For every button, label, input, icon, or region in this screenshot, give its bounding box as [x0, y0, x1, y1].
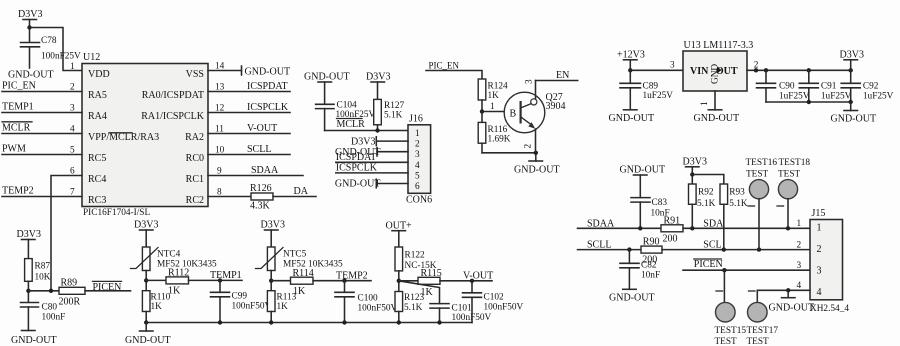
svg-text:TEST15: TEST15: [715, 326, 747, 336]
svg-text:U13 LM1117-3.3: U13 LM1117-3.3: [684, 40, 754, 51]
power port D3V3 (above R92/R93): [683, 157, 707, 185]
wire OUT rail / pin 2: [747, 61, 851, 71]
svg-text:200: 200: [663, 233, 678, 244]
svg-text:MCLR: MCLR: [2, 123, 31, 134]
pin number 4 / wire MCLR: [2, 122, 82, 135]
resistor R110 1K: [142, 291, 170, 323]
svg-text:1uF25V: 1uF25V: [821, 92, 852, 102]
node C83/SDA junction: [638, 226, 642, 230]
svg-text:R110: R110: [151, 293, 171, 303]
wire PICEN net to J15 pin 3: [683, 259, 810, 271]
svg-text:2: 2: [415, 140, 420, 150]
svg-text:RC1: RC1: [186, 174, 204, 185]
svg-text:RC0: RC0: [186, 153, 204, 164]
capacitor C78: [21, 36, 82, 68]
wire emitter to ground rail: [482, 152, 536, 154]
J16 pin5 wire ICSPCLK: [336, 163, 408, 174]
wire PICEN net: [85, 281, 131, 292]
svg-text:TEST17: TEST17: [747, 326, 779, 336]
svg-text:PICEN: PICEN: [93, 282, 122, 293]
svg-text:R92: R92: [698, 188, 714, 198]
svg-text:3: 3: [415, 150, 420, 160]
svg-text:1uF25V: 1uF25V: [779, 92, 810, 102]
svg-text:6: 6: [415, 182, 420, 192]
svg-text:R123: R123: [404, 293, 424, 303]
node base junction: [480, 109, 484, 113]
thermistor NTC5 MF52 10K3435: [256, 247, 344, 291]
svg-text:1: 1: [817, 223, 822, 234]
svg-text:R114: R114: [293, 268, 314, 279]
node rail R113: [269, 320, 273, 324]
node NTC5/R113/R114 junction: [269, 279, 273, 283]
svg-text:1: 1: [490, 102, 495, 112]
svg-text:C102: C102: [484, 293, 504, 303]
svg-text:RC5: RC5: [88, 153, 106, 164]
svg-text:TEST: TEST: [778, 170, 801, 180]
svg-text:5.1K: 5.1K: [729, 199, 748, 209]
capacitor C89: [620, 70, 673, 110]
wire junction to R112: [146, 279, 166, 281]
svg-text:TEST: TEST: [746, 170, 769, 180]
resistor R124 1K: [478, 79, 508, 122]
svg-text:GND-OUT: GND-OUT: [609, 113, 655, 124]
svg-text:100nF25V: 100nF25V: [41, 52, 81, 62]
resistor R92 5.1K: [689, 184, 716, 228]
svg-text:VPP/MCLR/RA3: VPP/MCLR/RA3: [88, 132, 159, 143]
svg-text:RA4: RA4: [88, 111, 107, 122]
svg-text:V-OUT: V-OUT: [463, 271, 493, 282]
svg-text:C90: C90: [779, 82, 795, 92]
svg-text:ICSPCLK: ICSPCLK: [247, 102, 289, 113]
svg-text:2: 2: [817, 244, 822, 255]
capacitor C102: [463, 281, 524, 323]
connector J16 CON6: [406, 114, 432, 206]
node rail R110: [144, 320, 148, 324]
svg-text:TEMP2: TEMP2: [336, 270, 368, 281]
pin 11 wire V-OUT: [208, 123, 290, 135]
svg-text:PIC16F1704-I/SL: PIC16F1704-I/SL: [83, 208, 150, 218]
svg-text:SDA: SDA: [703, 218, 724, 229]
wire junction to R89: [28, 290, 59, 292]
svg-text:R127: R127: [384, 101, 404, 111]
power port GND-OUT (above C104): [304, 72, 350, 105]
svg-text:D3V3: D3V3: [366, 72, 390, 83]
svg-text:R112: R112: [168, 268, 189, 279]
svg-text:R116: R116: [488, 125, 508, 135]
test point TEST17: [747, 290, 779, 346]
svg-text:VIN: VIN: [690, 66, 709, 77]
node pin4/GND junction: [786, 288, 790, 292]
pin 10 wire SCLL: [208, 144, 290, 156]
svg-text:R90: R90: [643, 237, 660, 248]
node C91 bottom: [807, 100, 811, 104]
node R87/C80/R89 junction: [26, 289, 30, 293]
pin number 7 / wire TEMP2: [2, 186, 82, 198]
svg-text:R93: R93: [729, 188, 745, 198]
svg-text:D3V3: D3V3: [840, 50, 864, 61]
svg-text:3: 3: [525, 79, 535, 84]
svg-text:TEMP2: TEMP2: [2, 186, 34, 197]
svg-text:RA0/ICSPDAT: RA0/ICSPDAT: [142, 90, 204, 101]
svg-text:4.3K: 4.3K: [250, 201, 271, 212]
svg-text:C83: C83: [652, 198, 668, 208]
svg-text:D3V3: D3V3: [351, 137, 375, 148]
svg-text:U12: U12: [83, 52, 100, 63]
power port D3V3 (above R127): [366, 72, 390, 100]
node TEST15/PICEN junction: [722, 268, 726, 272]
capacitor C83: [631, 198, 670, 229]
node C82/SCL junction: [627, 247, 631, 251]
svg-text:RC3: RC3: [88, 195, 106, 206]
svg-text:3: 3: [670, 61, 675, 71]
wire junction to R115: [399, 280, 418, 282]
svg-text:C100: C100: [358, 294, 378, 304]
pin 12 wire ICSPCLK: [208, 102, 290, 114]
ground GND-OUT (below C89): [609, 110, 655, 124]
svg-text:1K: 1K: [488, 91, 500, 101]
svg-text:NTC4: NTC4: [157, 250, 181, 260]
power port D3V3 (above R87): [17, 229, 41, 259]
node C100 top: [342, 279, 346, 283]
capacitor C100: [335, 281, 398, 323]
svg-text:100nF: 100nF: [42, 313, 66, 323]
svg-text:1: 1: [700, 101, 710, 106]
svg-text:100nF50V: 100nF50V: [484, 302, 524, 312]
node C102 top: [470, 279, 474, 283]
ground GND-OUT (below C80): [11, 331, 57, 346]
svg-text:VSS: VSS: [186, 69, 204, 80]
wire MCLR net: [325, 119, 408, 131]
ground GND-OUT (below C82): [609, 289, 655, 303]
svg-text:R91: R91: [664, 215, 681, 226]
svg-text:MCLR: MCLR: [337, 119, 366, 130]
capacitor C91: [799, 70, 851, 102]
svg-text:100nF50V: 100nF50V: [232, 302, 272, 312]
node NTC4/R110/R112 junction: [144, 278, 148, 282]
ground GND-OUT (U13 pin 1): [694, 91, 740, 124]
node rail C100: [342, 320, 346, 324]
pin 14 wire / power GND-OUT: [208, 62, 290, 78]
svg-text:100nF50V: 100nF50V: [358, 304, 398, 314]
wire diagonal to C101: [399, 281, 440, 304]
svg-text:C78: C78: [41, 36, 57, 46]
node TEST18/SDA junction: [786, 226, 790, 230]
node +12V3/C89 junction: [628, 68, 632, 72]
svg-text:2: 2: [797, 240, 802, 250]
svg-text:GND-OUT: GND-OUT: [620, 165, 666, 176]
power port OUT+: [386, 221, 413, 248]
svg-text:5.1K: 5.1K: [384, 111, 403, 121]
test point TEST15: [715, 270, 747, 346]
svg-text:GND-OUT: GND-OUT: [694, 113, 740, 124]
pin number 3 / wire TEMP1: [2, 102, 82, 114]
svg-text:1: 1: [415, 129, 420, 139]
svg-text:1: 1: [797, 219, 802, 229]
wire D3V3 to R93: [692, 175, 724, 185]
node rail R123: [397, 320, 401, 324]
pin 8 wire / resistor R126 4.3K / node DA: [208, 183, 316, 212]
node C92 top: [849, 68, 853, 72]
node rail C99: [218, 320, 222, 324]
svg-text:R89: R89: [61, 278, 78, 289]
svg-text:3904: 3904: [546, 101, 566, 112]
svg-text:SDAA: SDAA: [251, 165, 279, 176]
pin 13 wire ICSPDAT: [208, 81, 290, 93]
svg-text:5.1K: 5.1K: [404, 303, 423, 313]
wire D3V3 to U12 pin 1: [30, 28, 83, 71]
ground GND-OUT (rail): [125, 323, 171, 346]
capacitor C101: [430, 304, 492, 324]
resistor R91 200: [661, 215, 683, 244]
svg-text:TEMP1: TEMP1: [2, 102, 34, 113]
svg-text:5.1K: 5.1K: [697, 199, 716, 209]
svg-text:10K: 10K: [35, 273, 51, 283]
svg-text:GND-OUT: GND-OUT: [125, 335, 171, 346]
svg-text:GND-OUT: GND-OUT: [514, 165, 560, 176]
op-amp U12 PIC16F1704 body: [82, 52, 208, 218]
svg-text:5: 5: [415, 171, 420, 181]
svg-text:3: 3: [817, 266, 822, 277]
svg-text:NTC5: NTC5: [283, 250, 307, 260]
svg-text:3: 3: [797, 261, 802, 271]
node RC4 wire junction: [49, 289, 53, 293]
svg-text:GND-OUT: GND-OUT: [335, 179, 381, 190]
svg-text:C89: C89: [643, 82, 659, 92]
capacitor C82: [620, 250, 660, 290]
svg-text:200R: 200R: [59, 297, 81, 308]
svg-text:D3V3: D3V3: [134, 220, 158, 231]
svg-text:C80: C80: [42, 303, 58, 313]
wire EN: [536, 70, 578, 81]
pin 9 wire SDAA: [208, 165, 303, 177]
transistor Q27 3904: [504, 79, 565, 153]
J16 pin2 wire / power D3V3: [351, 137, 408, 148]
power port D3V3 (above NTC4): [134, 220, 158, 248]
resistor R90 200: [641, 237, 662, 266]
svg-text:1K: 1K: [151, 302, 163, 312]
svg-text:10nF: 10nF: [641, 270, 660, 280]
op-amp U13 LM1117-3.3 body: [683, 40, 753, 91]
svg-text:GND-OUT: GND-OUT: [304, 72, 350, 83]
svg-text:PIC_EN: PIC_EN: [429, 60, 460, 70]
pin names U12 left: [88, 69, 159, 206]
node D3V3/R92 junction: [690, 172, 694, 176]
svg-text:VDD: VDD: [88, 69, 110, 80]
svg-text:RA5: RA5: [88, 90, 107, 101]
svg-text:RC2: RC2: [186, 195, 204, 206]
wire J15 pin 4 / ground: [757, 281, 810, 291]
node rail C101: [437, 320, 441, 324]
wire SCL net to J15 pin 2: [662, 240, 810, 251]
svg-text:C99: C99: [232, 292, 248, 302]
test point TEST18: [777, 158, 810, 228]
node R93/SCL junction: [722, 247, 726, 251]
svg-text:DA: DA: [294, 186, 309, 197]
resistor R116 1.69K: [478, 122, 511, 152]
svg-text:SCLL: SCLL: [247, 144, 271, 155]
svg-text:OUT+: OUT+: [386, 221, 413, 232]
svg-text:GND-OUT: GND-OUT: [11, 335, 57, 346]
svg-text:1K: 1K: [277, 302, 289, 312]
J16 pin3 wire / power GND-OUT: [335, 147, 408, 158]
svg-text:GND-OUT: GND-OUT: [609, 292, 655, 303]
resistor R114 1K: [291, 268, 314, 297]
wire V-OUT net: [440, 271, 493, 282]
svg-text:PWM: PWM: [2, 144, 26, 155]
svg-text:D3V3: D3V3: [18, 9, 42, 20]
node C91 top: [807, 68, 811, 72]
svg-text:4: 4: [817, 287, 822, 298]
svg-text:+12V3: +12V3: [617, 50, 645, 61]
power port D3V3 (top right): [840, 50, 864, 71]
svg-text:CON6: CON6: [406, 195, 432, 206]
capacitor C92: [841, 70, 893, 102]
svg-text:R87: R87: [35, 262, 51, 272]
wire PIC_EN to R124: [426, 60, 482, 79]
node MCLR/R127 junction: [375, 128, 379, 132]
resistor R127 5.1K: [374, 99, 405, 130]
svg-text:ICSPDAT: ICSPDAT: [247, 81, 288, 92]
svg-text:D3V3: D3V3: [17, 229, 41, 240]
svg-text:TEST: TEST: [747, 337, 770, 346]
resistor R89 200R: [59, 278, 86, 308]
ground GND-OUT (J15 pin 4): [769, 290, 815, 313]
svg-text:GND-OUT: GND-OUT: [245, 67, 291, 78]
svg-text:J16: J16: [409, 114, 423, 125]
power port GND-OUT (above C83): [620, 165, 666, 198]
svg-text:D3V3: D3V3: [261, 220, 285, 231]
svg-text:C104: C104: [337, 101, 357, 111]
node A: D3V3/C78 junction: [27, 25, 31, 29]
J16 pin6 wire / power GND-OUT: [335, 179, 408, 190]
svg-text:C82: C82: [641, 260, 657, 270]
wire +12V3 to VIN / pin 3: [630, 61, 683, 71]
wire SCLL net: [578, 240, 642, 251]
wire TEMP2 net: [313, 270, 371, 281]
svg-text:GND-OUT: GND-OUT: [769, 303, 815, 314]
svg-text:R124: R124: [488, 82, 508, 92]
wire junction to R114: [271, 280, 290, 282]
pin names U12 right: [141, 69, 205, 206]
svg-text:TEMP1: TEMP1: [210, 270, 242, 281]
resistor R122 NC-15K: [395, 247, 437, 292]
svg-text:ICSPCLK: ICSPCLK: [336, 163, 378, 174]
svg-text:V-OUT: V-OUT: [247, 123, 277, 134]
svg-text:GND: GND: [711, 64, 721, 84]
svg-text:PICEN: PICEN: [694, 259, 723, 270]
svg-text:PIC_EN: PIC_EN: [2, 81, 36, 92]
capacitor C90: [757, 70, 810, 102]
resistor R115 1K: [418, 268, 442, 298]
svg-text:1uF25V: 1uF25V: [643, 91, 674, 101]
thermistor NTC4 MF52 10K3435: [131, 247, 218, 291]
svg-text:SCL: SCL: [703, 240, 721, 251]
svg-text:EN: EN: [556, 70, 569, 81]
power port +12V3: [617, 50, 645, 71]
test point TEST16: [746, 158, 778, 250]
capacitor C104: [316, 101, 376, 131]
node R92/SDA junction: [690, 226, 694, 230]
svg-text:R115: R115: [421, 268, 442, 279]
svg-text:C101: C101: [452, 304, 472, 314]
svg-text:SCLL: SCLL: [587, 240, 611, 251]
power port D3V3 (above NTC5): [261, 220, 285, 248]
svg-text:B: B: [510, 109, 517, 120]
svg-text:RA1/ICSPCLK: RA1/ICSPCLK: [141, 111, 205, 122]
svg-text:GND-OUT: GND-OUT: [8, 70, 54, 81]
pin number 5 / wire PWM: [2, 144, 82, 156]
pin number 6 / wire RC4 to PICEN node: [51, 167, 82, 291]
connector J15 XH2.54_4: [810, 208, 849, 314]
J16 pin4 wire ICSPDAT: [336, 152, 408, 163]
svg-text:SDAA: SDAA: [587, 218, 615, 229]
wire TEMP1 net: [189, 270, 243, 281]
svg-text:4: 4: [797, 281, 802, 291]
ground GND-OUT (below C92): [831, 102, 877, 125]
svg-text:R113: R113: [277, 293, 297, 303]
node emitter junction: [534, 151, 538, 155]
ground GND-OUT (below Q27): [514, 153, 560, 176]
svg-text:ICSPDAT: ICSPDAT: [336, 152, 377, 163]
svg-text:GND-OUT: GND-OUT: [831, 114, 877, 125]
capacitor C99: [211, 280, 272, 322]
svg-text:TEST: TEST: [715, 337, 738, 346]
svg-text:D3V3: D3V3: [683, 157, 707, 168]
svg-text:XH2.54_4: XH2.54_4: [810, 304, 849, 314]
power port D3V3 (top left): [18, 9, 42, 42]
resistor R93 5.1K: [720, 184, 748, 250]
node C99 top: [218, 278, 222, 282]
pin number 2 / wire PIC_EN: [2, 81, 82, 93]
resistor R112 1K: [166, 268, 189, 297]
svg-text:RC4: RC4: [88, 174, 106, 185]
svg-text:1uF25V: 1uF25V: [863, 92, 894, 102]
node TEST16/SCL junction: [757, 247, 761, 251]
svg-text:RA2: RA2: [185, 132, 204, 143]
node C90 top: [764, 68, 768, 72]
node OUT pin junction: [754, 68, 758, 72]
svg-text:1.69K: 1.69K: [488, 135, 511, 145]
wire cap bottoms rail: [766, 101, 851, 103]
wire SDAA net: [578, 218, 662, 229]
svg-text:C91: C91: [821, 82, 837, 92]
svg-text:TEST16: TEST16: [746, 158, 778, 168]
resistor R113 1K: [267, 291, 296, 323]
wire bottom ground rail: [146, 322, 472, 324]
svg-text:R122: R122: [405, 251, 425, 261]
svg-text:4: 4: [415, 161, 420, 171]
svg-text:R126: R126: [250, 183, 272, 194]
svg-text:2: 2: [524, 144, 534, 149]
svg-text:J15: J15: [812, 208, 826, 219]
capacitor C80: [21, 303, 66, 331]
resistor R123 5.1K: [395, 292, 424, 323]
svg-text:TEST18: TEST18: [779, 158, 811, 168]
node C92 bottom: [849, 100, 853, 104]
node R122/R123/R115 junction: [397, 279, 401, 283]
resistor R87 10K: [25, 259, 51, 303]
svg-text:1: 1: [70, 62, 75, 72]
svg-text:C92: C92: [863, 82, 879, 92]
wire base / pin 1: [482, 102, 520, 112]
wire SDA net to J15 pin 1: [683, 218, 810, 229]
